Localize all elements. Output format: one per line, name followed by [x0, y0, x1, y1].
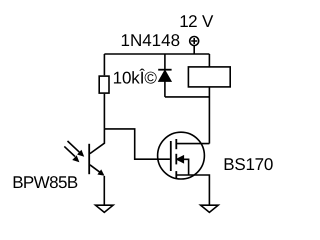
- light arrow 1: [68, 141, 85, 157]
- wire: source lead to ground: [176, 175, 209, 205]
- relay coil K1: [188, 67, 230, 87]
- wire: resistor to collector node: [103, 94, 105, 129]
- ground (left): [96, 205, 114, 212]
- wire: drain lead: [176, 143, 209, 145]
- supply terminal +12V: [190, 37, 199, 46]
- svg-text:1N4148: 1N4148: [121, 31, 181, 50]
- ground (right): [201, 205, 219, 212]
- wire: diode anode to bottom rail: [164, 81, 166, 97]
- resistor R1: [99, 76, 109, 93]
- MOSFET Q2 BS170: [158, 132, 205, 179]
- wire: rail to diode cathode: [164, 54, 166, 70]
- wire: relay bottom pin to drain: [208, 88, 210, 144]
- light arrow 2: [64, 146, 79, 162]
- phototransistor Q1 BPW85B: [89, 129, 104, 176]
- wire: flyback bottom rail: [165, 96, 210, 98]
- wire: rail down to resistor: [103, 54, 105, 75]
- svg-text:BS170: BS170: [223, 155, 273, 174]
- svg-text:BPW85B: BPW85B: [12, 173, 78, 192]
- wire: collector node to MOSFET gate: [104, 129, 169, 159]
- wire: supply stub: [193, 46, 195, 54]
- wire: +12V top rail: [104, 53, 209, 55]
- svg-text:10kÎ©: 10kÎ©: [113, 69, 158, 88]
- wire: relay top pin: [208, 54, 210, 67]
- diode D1 1N4148: [158, 70, 171, 82]
- wire: emitter to ground: [103, 176, 105, 205]
- svg-text:12 V: 12 V: [179, 12, 214, 31]
